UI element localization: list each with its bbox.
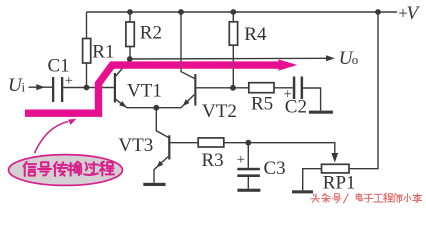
svg-text:R5: R5 [251,94,273,115]
svg-text:R3: R3 [202,150,224,171]
svg-text:o: o [352,52,359,67]
svg-text:VT1: VT1 [127,81,162,102]
svg-text:+: + [284,87,292,103]
svg-text:R1: R1 [92,42,114,63]
svg-text:VT3: VT3 [118,135,153,156]
svg-text:C3: C3 [264,158,286,179]
svg-text:+: + [237,152,245,168]
svg-text:+: + [398,4,408,23]
svg-text:VT2: VT2 [202,101,237,122]
svg-text:R2: R2 [140,22,162,43]
svg-text:i: i [22,80,26,95]
svg-text:+: + [65,73,73,89]
svg-text:R4: R4 [244,24,267,45]
svg-text:RP1: RP1 [323,173,356,194]
